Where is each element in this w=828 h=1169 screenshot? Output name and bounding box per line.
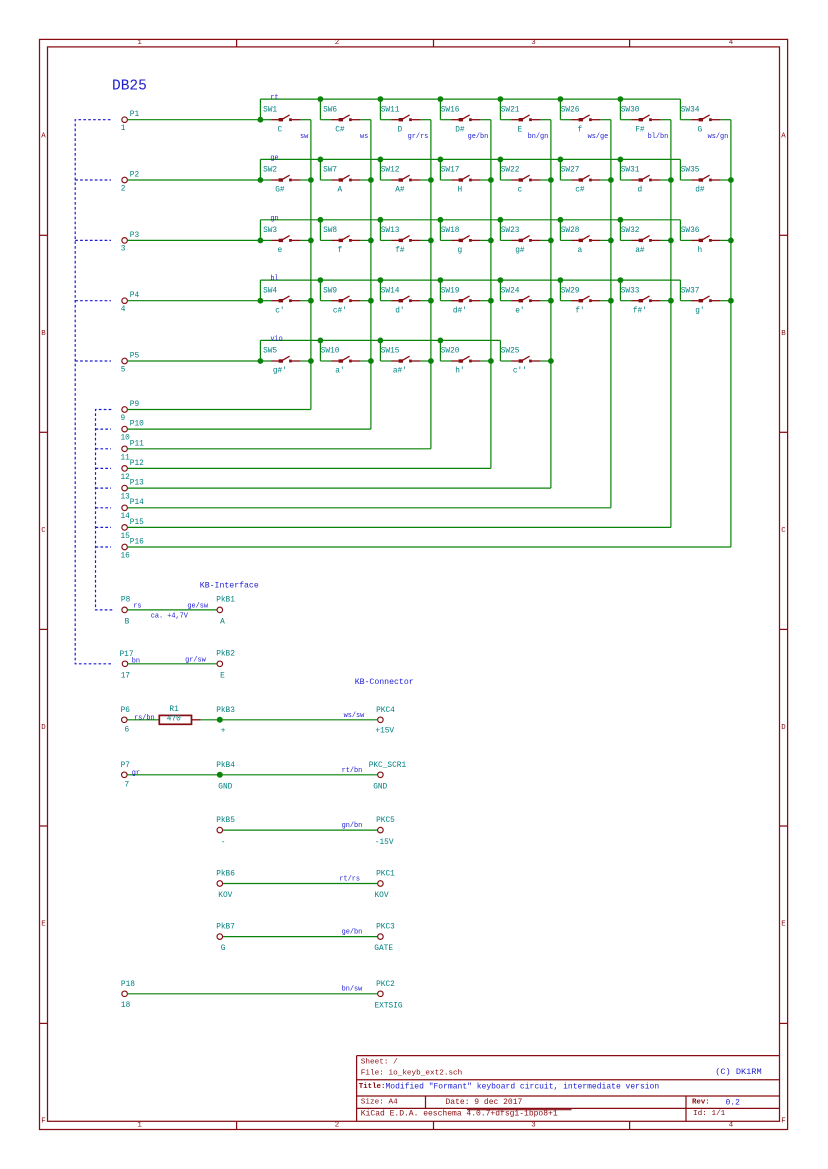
svg-text:KiCad E.D.A. eeschema 4.0.7+d: KiCad E.D.A. eeschema 4.0.7+dfsg1-1bpo8+… bbox=[361, 1109, 558, 1118]
svg-text:c#: c# bbox=[575, 187, 585, 195]
wire P3 to switch row 3 bbox=[128, 239, 261, 241]
svg-text:G: G bbox=[221, 945, 226, 953]
svg-text:P18: P18 bbox=[121, 981, 135, 989]
svg-text:+15V: +15V bbox=[375, 728, 394, 736]
junction row 1 bus col 6 bbox=[558, 96, 564, 102]
wire P10 to column 2 bbox=[128, 428, 371, 430]
pin PKC3 bbox=[374, 924, 395, 954]
junction column 7 row 2 bbox=[668, 177, 674, 183]
junction row 5 bus col 3 bbox=[378, 338, 384, 344]
svg-text:bl/bn: bl/bn bbox=[648, 133, 669, 141]
wire P7 to PKC_SCR1 bbox=[127, 774, 377, 776]
svg-text:e: e bbox=[278, 247, 283, 255]
junction column 6 row 3 bbox=[608, 238, 614, 244]
frame column ticks bottom bbox=[236, 1121, 238, 1129]
pin PKC4 bbox=[375, 707, 395, 736]
wire row 2 bus drop col 7 bbox=[619, 159, 621, 180]
switch SW30 bbox=[620, 106, 671, 134]
wire row 1 bus drop col 8 bbox=[679, 99, 681, 120]
svg-text:vio: vio bbox=[270, 335, 282, 343]
svg-text:PkB6: PkB6 bbox=[216, 871, 235, 879]
junction column 5 row 4 bbox=[548, 298, 554, 304]
svg-text:a': a' bbox=[335, 368, 344, 376]
junction row 4 bus col 3 bbox=[378, 277, 384, 283]
junction column 3 row 2 bbox=[428, 177, 434, 183]
junction row 2 bus col 6 bbox=[558, 157, 564, 163]
svg-text:2: 2 bbox=[335, 39, 339, 47]
switch SW35 bbox=[680, 167, 731, 195]
junction row 4 bus col 4 bbox=[438, 277, 444, 283]
junction column 4 row 4 bbox=[488, 298, 494, 304]
pin PKC5 bbox=[375, 817, 395, 847]
switch SW14 bbox=[380, 287, 431, 315]
wire row 4 bus drop col 7 bbox=[619, 280, 621, 301]
junction row 3 bus col 5 bbox=[498, 217, 504, 223]
pin PkB3 bbox=[216, 707, 235, 736]
junction row 3 bus col 2 bbox=[318, 217, 324, 223]
junction column 1 row 4 bbox=[308, 298, 314, 304]
wire P17 to PkB2 bbox=[128, 663, 216, 665]
svg-text:A: A bbox=[220, 618, 225, 626]
svg-text:GND: GND bbox=[373, 784, 387, 792]
svg-text:bn: bn bbox=[132, 657, 140, 665]
junction row 2 bus col 7 bbox=[618, 157, 624, 163]
svg-text:P12: P12 bbox=[130, 460, 144, 468]
svg-text:gn: gn bbox=[270, 215, 278, 223]
switch SW28 bbox=[560, 227, 611, 255]
svg-text:Rev:: Rev: bbox=[692, 1098, 710, 1106]
wire column 8 output vertical to P16 bbox=[730, 120, 732, 547]
svg-text:G#: G# bbox=[275, 187, 285, 195]
svg-text:PKC3: PKC3 bbox=[376, 924, 395, 932]
svg-text:PkB2: PkB2 bbox=[216, 651, 235, 659]
wire row 3 bus drop col 2 bbox=[319, 220, 321, 241]
wire P13 to column 5 bbox=[128, 487, 551, 489]
wire row 1 bus drop col 7 bbox=[619, 99, 621, 120]
wire row 5 bus horizontal net vio bbox=[260, 339, 500, 341]
svg-text:4: 4 bbox=[121, 306, 126, 314]
svg-text:P4: P4 bbox=[130, 292, 140, 300]
junction column 4 row 5 bbox=[488, 358, 494, 364]
title block frame bbox=[357, 1056, 780, 1122]
junction row 4 bus col 5 bbox=[498, 277, 504, 283]
svg-text:SW1: SW1 bbox=[263, 106, 277, 114]
svg-text:2: 2 bbox=[121, 185, 126, 193]
svg-text:-15V: -15V bbox=[375, 839, 394, 847]
wire P11 to column 3 bbox=[128, 448, 431, 450]
svg-text:SW27: SW27 bbox=[561, 167, 580, 175]
svg-text:SW5: SW5 bbox=[263, 348, 277, 356]
switch SW5 bbox=[260, 348, 311, 376]
wire row 2 bus drop col 8 bbox=[679, 159, 681, 180]
svg-text:B: B bbox=[41, 330, 46, 338]
svg-text:ws: ws bbox=[360, 133, 368, 141]
wire row 3 bus drop col 7 bbox=[619, 220, 621, 241]
svg-text:f#': f#' bbox=[633, 307, 647, 315]
switch SW34 bbox=[680, 106, 731, 134]
junction column 4 row 3 bbox=[488, 238, 494, 244]
junction row 3 bus col 6 bbox=[558, 217, 564, 223]
svg-text:G: G bbox=[698, 126, 703, 134]
svg-text:P14: P14 bbox=[130, 499, 144, 507]
pin PkB7 bbox=[216, 924, 235, 954]
svg-text:1: 1 bbox=[121, 125, 126, 133]
junction column 6 row 2 bbox=[608, 177, 614, 183]
svg-text:GATE: GATE bbox=[374, 945, 393, 953]
dashed bracket DB25 group P9-P16 P8 bbox=[96, 410, 114, 610]
svg-text:e': e' bbox=[515, 307, 524, 315]
junction row 4 bus col 7 bbox=[618, 277, 624, 283]
svg-text:c'': c'' bbox=[513, 368, 527, 376]
svg-text:KOV: KOV bbox=[218, 892, 232, 900]
svg-text:SW32: SW32 bbox=[621, 227, 640, 235]
svg-text:PKC1: PKC1 bbox=[376, 871, 395, 879]
svg-text:SW24: SW24 bbox=[501, 287, 520, 295]
svg-text:E: E bbox=[220, 672, 225, 680]
wire column 4 output vertical to P12 bbox=[490, 120, 492, 469]
junction column 8 row 4 bbox=[728, 298, 734, 304]
svg-text:B: B bbox=[781, 330, 786, 338]
junction column 2 row 4 bbox=[368, 298, 374, 304]
svg-text:D: D bbox=[41, 724, 46, 732]
svg-text:rs: rs bbox=[133, 602, 141, 610]
svg-text:C: C bbox=[41, 527, 46, 535]
junction row 2 bus col 4 bbox=[438, 157, 444, 163]
svg-text:A: A bbox=[338, 187, 343, 195]
svg-text:c: c bbox=[518, 187, 523, 195]
wire PkB5 to PKC5 bbox=[223, 829, 377, 831]
svg-text:bl: bl bbox=[270, 275, 278, 283]
svg-text:SW25: SW25 bbox=[501, 348, 520, 356]
svg-text:+: + bbox=[221, 728, 226, 736]
svg-text:d#: d# bbox=[695, 187, 705, 195]
wire row 1 bus horizontal net rt bbox=[260, 98, 680, 100]
wire row 1 bus riser bbox=[259, 99, 261, 120]
svg-text:SW23: SW23 bbox=[501, 227, 520, 235]
svg-text:E: E bbox=[41, 921, 46, 929]
frame column labels bbox=[137, 39, 733, 1129]
pin P18 bbox=[121, 981, 135, 1010]
junction column 6 row 4 bbox=[608, 298, 614, 304]
svg-text:P1: P1 bbox=[130, 111, 140, 119]
junction column 5 row 3 bbox=[548, 238, 554, 244]
junction column 7 row 4 bbox=[668, 298, 674, 304]
svg-text:SW14: SW14 bbox=[381, 287, 400, 295]
junction column 2 row 5 bbox=[368, 358, 374, 364]
svg-text:rs/bn: rs/bn bbox=[134, 714, 155, 722]
svg-text:SW17: SW17 bbox=[441, 167, 460, 175]
svg-text:SW18: SW18 bbox=[441, 227, 460, 235]
svg-text:P15: P15 bbox=[130, 519, 144, 527]
svg-text:SW30: SW30 bbox=[621, 106, 640, 114]
wire P9 to column 1 bbox=[128, 409, 311, 411]
switch SW21 bbox=[500, 106, 551, 134]
svg-text:gn/bn: gn/bn bbox=[342, 822, 363, 830]
svg-text:EXTSIG: EXTSIG bbox=[375, 1002, 403, 1010]
svg-text:PKC5: PKC5 bbox=[376, 817, 395, 825]
switch SW33 bbox=[620, 287, 671, 315]
switch SW32 bbox=[620, 227, 671, 255]
svg-text:KOV: KOV bbox=[375, 892, 389, 900]
svg-text:SW8: SW8 bbox=[323, 227, 337, 235]
svg-text:10: 10 bbox=[121, 435, 131, 443]
junction row 1 at riser bbox=[258, 117, 264, 123]
switch SW37 bbox=[680, 287, 731, 315]
svg-text:P6: P6 bbox=[121, 707, 131, 715]
svg-text:C: C bbox=[781, 527, 786, 535]
svg-text:SW15: SW15 bbox=[381, 348, 400, 356]
junction column 1 row 5 bbox=[308, 358, 314, 364]
wire row 3 bus riser bbox=[259, 220, 261, 241]
svg-text:g: g bbox=[458, 247, 463, 255]
junction column 1 row 2 bbox=[308, 177, 314, 183]
pin P6 bbox=[121, 707, 131, 735]
wire row 1 bus drop col 2 bbox=[319, 99, 321, 120]
pin P9 bbox=[121, 401, 140, 423]
svg-text:h: h bbox=[698, 247, 703, 255]
svg-text:f: f bbox=[578, 126, 583, 134]
svg-text:File: io_keyb_ext2.sch: File: io_keyb_ext2.sch bbox=[361, 1070, 463, 1078]
pin PkB6 bbox=[216, 871, 235, 901]
svg-text:f': f' bbox=[575, 307, 584, 315]
svg-text:18: 18 bbox=[121, 1002, 131, 1010]
svg-text:1: 1 bbox=[137, 39, 142, 47]
switch SW17 bbox=[440, 167, 491, 195]
switch SW24 bbox=[500, 287, 551, 315]
wire row 3 bus horizontal net gn bbox=[260, 219, 680, 221]
frame column ticks top bbox=[236, 39, 238, 47]
pin P17 bbox=[120, 651, 134, 680]
svg-text:d: d bbox=[638, 187, 643, 195]
wire PkB6 to PKC1 bbox=[223, 883, 377, 885]
svg-text:E: E bbox=[518, 126, 523, 134]
svg-text:ca. +4,7V: ca. +4,7V bbox=[151, 613, 189, 621]
pin PKC2 bbox=[375, 981, 403, 1011]
switch SW29 bbox=[560, 287, 611, 315]
resistor R1 bbox=[159, 706, 200, 724]
wire column 3 output vertical to P11 bbox=[430, 120, 432, 449]
svg-text:PkB1: PkB1 bbox=[216, 597, 235, 605]
svg-text:ws/gn: ws/gn bbox=[708, 133, 729, 141]
svg-text:SW16: SW16 bbox=[441, 106, 460, 114]
svg-text:Title:: Title: bbox=[359, 1083, 386, 1091]
wire P8 to PkB1 bbox=[128, 609, 217, 611]
svg-text:SW36: SW36 bbox=[681, 227, 700, 235]
junction row 2 bus col 3 bbox=[378, 157, 384, 163]
svg-text:SW10: SW10 bbox=[321, 348, 340, 356]
wire P5 to switch row 5 bbox=[128, 360, 261, 362]
pin P15 bbox=[121, 519, 145, 541]
switch SW18 bbox=[440, 227, 491, 255]
junction column 2 row 3 bbox=[368, 238, 374, 244]
switch SW8 bbox=[320, 227, 371, 255]
svg-text:PkB5: PkB5 bbox=[216, 817, 235, 825]
switch SW13 bbox=[380, 227, 431, 255]
svg-text:SW34: SW34 bbox=[681, 106, 700, 114]
wire row 1 bus drop col 3 bbox=[379, 99, 381, 120]
switch SW25 bbox=[500, 348, 551, 376]
svg-text:15: 15 bbox=[121, 533, 131, 541]
svg-text:P3: P3 bbox=[130, 232, 140, 240]
wire row 3 bus drop col 5 bbox=[499, 220, 501, 241]
svg-text:KB-Interface: KB-Interface bbox=[200, 581, 259, 591]
svg-text:g#: g# bbox=[515, 247, 525, 255]
junction column 3 row 5 bbox=[428, 358, 434, 364]
svg-text:SW4: SW4 bbox=[263, 287, 277, 295]
wire column 7 output vertical to P15 bbox=[670, 120, 672, 528]
switch SW22 bbox=[500, 167, 551, 195]
switch SW12 bbox=[380, 167, 431, 195]
frame row labels bbox=[41, 133, 786, 1126]
svg-text:9: 9 bbox=[121, 415, 126, 423]
svg-text:PkB7: PkB7 bbox=[216, 924, 235, 932]
svg-text:gr/rs: gr/rs bbox=[408, 133, 429, 141]
svg-text:c': c' bbox=[275, 307, 284, 315]
svg-text:d#': d#' bbox=[453, 307, 467, 315]
svg-text:A: A bbox=[781, 133, 786, 141]
svg-text:7: 7 bbox=[125, 782, 130, 790]
wire column 5 output vertical to P13 bbox=[550, 120, 552, 488]
svg-text:P16: P16 bbox=[130, 539, 144, 547]
svg-text:R1: R1 bbox=[169, 706, 179, 714]
svg-text:g': g' bbox=[695, 307, 704, 315]
junction column 7 row 3 bbox=[668, 238, 674, 244]
svg-text:5: 5 bbox=[121, 366, 126, 374]
svg-text:P10: P10 bbox=[130, 421, 144, 429]
svg-text:PKC2: PKC2 bbox=[376, 981, 395, 989]
svg-text:P13: P13 bbox=[130, 480, 144, 488]
wire row 4 bus drop col 2 bbox=[319, 280, 321, 301]
wire P4 to switch row 4 bbox=[128, 300, 261, 302]
svg-text:B: B bbox=[125, 618, 130, 626]
svg-text:PKC_SCR1: PKC_SCR1 bbox=[369, 762, 407, 770]
svg-text:SW9: SW9 bbox=[323, 287, 337, 295]
junction row 3 bus col 7 bbox=[618, 217, 624, 223]
svg-text:3: 3 bbox=[531, 39, 535, 47]
wire P15 to column 7 bbox=[128, 526, 671, 528]
pin P3 bbox=[121, 232, 140, 254]
svg-text:17: 17 bbox=[121, 672, 131, 680]
wire row 2 bus drop col 6 bbox=[559, 159, 561, 180]
wire row 5 bus drop col 3 bbox=[379, 340, 381, 361]
junction row 2 bus col 2 bbox=[318, 157, 324, 163]
svg-text:4: 4 bbox=[729, 39, 734, 47]
wire P14 to column 6 bbox=[128, 507, 611, 509]
junction column 3 row 4 bbox=[428, 298, 434, 304]
dashed bracket DB25 group P1 P2 P3 P4 P5 P17 bbox=[75, 120, 113, 664]
pin PkB5 bbox=[216, 817, 235, 847]
wire R1 to PKC4 bbox=[201, 719, 378, 721]
svg-text:14: 14 bbox=[121, 513, 131, 521]
junction column 5 row 5 bbox=[548, 358, 554, 364]
svg-text:470: 470 bbox=[167, 716, 181, 724]
switch SW27 bbox=[560, 167, 611, 195]
junction row 5 at riser bbox=[258, 358, 264, 364]
svg-text:rt: rt bbox=[270, 94, 278, 102]
svg-text:SW19: SW19 bbox=[441, 287, 460, 295]
svg-text:SW7: SW7 bbox=[323, 167, 337, 175]
svg-text:(C) DK1RM: (C) DK1RM bbox=[715, 1067, 761, 1077]
svg-text:D#: D# bbox=[455, 126, 465, 134]
svg-text:ge/bn: ge/bn bbox=[342, 928, 363, 936]
wire row 4 bus drop col 4 bbox=[439, 280, 441, 301]
wire row 3 bus drop col 3 bbox=[379, 220, 381, 241]
svg-text:ws/sw: ws/sw bbox=[344, 712, 366, 720]
pin P14 bbox=[121, 499, 145, 521]
wire row 1 bus drop col 5 bbox=[499, 99, 501, 120]
frame row ticks right bbox=[780, 234, 788, 236]
pin P13 bbox=[121, 480, 145, 502]
pin P5 bbox=[121, 353, 140, 375]
svg-text:F: F bbox=[41, 1118, 45, 1126]
junction row 3 bus col 4 bbox=[438, 217, 444, 223]
svg-text:d': d' bbox=[395, 307, 404, 315]
svg-text:GND: GND bbox=[218, 784, 232, 792]
svg-text:SW21: SW21 bbox=[501, 106, 520, 114]
junction column 5 row 2 bbox=[548, 177, 554, 183]
wire P18 to PKC2 bbox=[128, 993, 377, 995]
wire row 2 bus drop col 3 bbox=[379, 159, 381, 180]
junction row 4 bus col 6 bbox=[558, 277, 564, 283]
svg-text:PkB4: PkB4 bbox=[216, 762, 235, 770]
svg-text:F: F bbox=[781, 1118, 785, 1126]
svg-text:DB25: DB25 bbox=[112, 79, 147, 95]
junction column 8 row 2 bbox=[728, 177, 734, 183]
junction column 2 row 2 bbox=[368, 177, 374, 183]
svg-text:SW3: SW3 bbox=[263, 227, 277, 235]
wire row 4 bus riser bbox=[259, 280, 261, 301]
switch SW36 bbox=[680, 227, 731, 255]
wire row 1 bus drop col 4 bbox=[439, 99, 441, 120]
svg-text:0.2: 0.2 bbox=[726, 1099, 741, 1108]
svg-text:SW13: SW13 bbox=[381, 227, 400, 235]
junction row 1 bus col 3 bbox=[378, 96, 384, 102]
svg-text:1: 1 bbox=[137, 1122, 142, 1130]
svg-text:a#: a# bbox=[635, 247, 645, 255]
svg-text:SW26: SW26 bbox=[561, 106, 580, 114]
pin PKC1 bbox=[375, 871, 396, 901]
pin P1 bbox=[121, 111, 140, 133]
frame row ticks left bbox=[40, 234, 48, 236]
svg-text:c#': c#' bbox=[333, 307, 347, 315]
svg-text:h': h' bbox=[455, 368, 464, 376]
wire row 4 bus horizontal net bl bbox=[260, 279, 680, 281]
svg-text:PKC4: PKC4 bbox=[376, 707, 395, 715]
junction row 5 bus col 4 bbox=[438, 338, 444, 344]
svg-text:F#: F# bbox=[635, 126, 645, 134]
svg-text:6: 6 bbox=[125, 727, 130, 735]
svg-text:f#: f# bbox=[395, 247, 405, 255]
svg-text:f: f bbox=[338, 247, 343, 255]
wire PkB7 to PKC3 bbox=[223, 936, 377, 938]
switch SW6 bbox=[320, 106, 371, 134]
svg-text:SW22: SW22 bbox=[501, 167, 520, 175]
junction row 4 bus col 2 bbox=[318, 277, 324, 283]
svg-text:gr: gr bbox=[132, 769, 140, 777]
junction row 1 bus col 4 bbox=[438, 96, 444, 102]
wire row 3 bus drop col 6 bbox=[559, 220, 561, 241]
switch SW2 bbox=[260, 167, 311, 195]
switch SW20 bbox=[440, 348, 491, 376]
title block version overbar bbox=[467, 1109, 572, 1111]
svg-text:KB-Connector: KB-Connector bbox=[355, 678, 414, 687]
svg-text:H: H bbox=[458, 187, 463, 195]
svg-text:SW28: SW28 bbox=[561, 227, 580, 235]
pin P4 bbox=[121, 292, 140, 314]
junction column 8 row 3 bbox=[728, 238, 734, 244]
wire row 4 bus drop col 5 bbox=[499, 280, 501, 301]
svg-text:rt/bn: rt/bn bbox=[342, 767, 363, 775]
